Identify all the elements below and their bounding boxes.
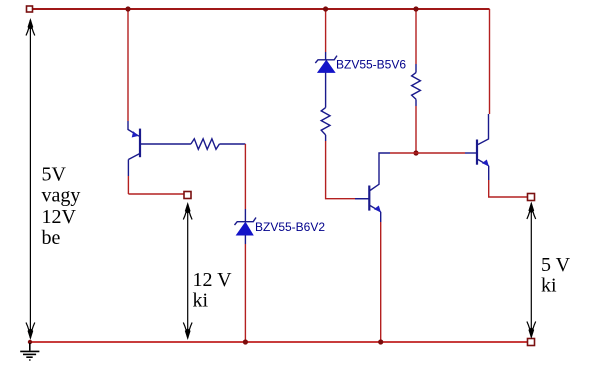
wire corner down to D1 xyxy=(244,144,246,209)
wire R1 to corner xyxy=(219,143,245,145)
transistor Q2 (NPN) xyxy=(355,153,390,222)
node ground rail left end xyxy=(28,340,32,344)
wire ground rail xyxy=(30,341,528,343)
terminal 12V out xyxy=(184,192,191,199)
svg-text:ki: ki xyxy=(193,290,209,312)
wire V+ to R3 xyxy=(415,9,417,64)
transistor Q3 (NPN) xyxy=(465,114,489,180)
wire R2 to Q2 base xyxy=(326,141,355,199)
node junction bottom x245 xyxy=(243,339,248,344)
zener diode D2 xyxy=(315,56,337,73)
wire D1 top lead xyxy=(244,209,246,221)
wire D2 top lead xyxy=(325,52,327,60)
svg-text:BZV55-B6V2: BZV55-B6V2 xyxy=(255,220,325,234)
node junction top rail x128 xyxy=(125,6,130,11)
wire R3 top lead xyxy=(415,64,417,73)
wire V+ to D2 xyxy=(325,9,327,52)
wire Q1 collector lead down xyxy=(127,160,129,177)
svg-text:ki: ki xyxy=(541,275,557,297)
wire R3 to node xyxy=(415,106,417,153)
node junction top rail x325 xyxy=(323,6,328,11)
wire Q2 collector to node xyxy=(390,152,416,154)
resistor R2 xyxy=(321,108,330,135)
transistor Q1 (PNP, mirrored) xyxy=(128,129,191,160)
terminal bottom right xyxy=(528,339,535,346)
svg-text:12 V: 12 V xyxy=(193,269,233,291)
terminal input top-left xyxy=(27,6,33,12)
wire Q3 emitter to 5V terminal xyxy=(489,180,528,197)
svg-text:5 V: 5 V xyxy=(541,254,571,276)
wire R3 bottom lead xyxy=(415,99,417,106)
dimension arrow input (5V/12V be) xyxy=(26,20,35,338)
wire D1 to ground rail xyxy=(244,244,246,342)
svg-text:5V: 5V xyxy=(42,164,67,186)
wire D2 to R2 xyxy=(325,72,327,107)
wire V+ to Q1 emitter xyxy=(127,9,129,121)
svg-text:be: be xyxy=(42,227,61,249)
dimension arrow 12V ki xyxy=(183,204,192,338)
wire top rail xyxy=(33,8,490,10)
dimension arrow 5V ki xyxy=(527,204,536,338)
resistor R3 xyxy=(412,73,421,100)
wire Q1 collector down xyxy=(127,176,129,194)
wire Q2 emitter to ground rail xyxy=(380,222,382,342)
node junction x416 y153 xyxy=(413,150,418,155)
node junction top rail x416 xyxy=(413,6,418,11)
svg-text:BZV55-B5V6: BZV55-B5V6 xyxy=(336,58,406,72)
ground xyxy=(20,343,39,360)
wire D1 bottom lead xyxy=(244,235,246,244)
terminal 5V out xyxy=(528,194,535,201)
svg-text:12V: 12V xyxy=(42,206,77,228)
node junction bottom x380 xyxy=(378,339,383,344)
wire Q2 base lead xyxy=(355,198,369,200)
wire Q1 emitter lead xyxy=(127,121,129,130)
wire Q1 collector to 12V terminal xyxy=(128,193,184,195)
wire R2 bottom lead xyxy=(325,135,327,141)
wire V+ right end down to Q3 collector xyxy=(489,9,491,114)
wire node to Q3 base xyxy=(416,152,465,154)
zener diode D1 xyxy=(235,218,257,236)
svg-text:vagy: vagy xyxy=(42,185,81,207)
resistor R1 xyxy=(191,139,220,150)
